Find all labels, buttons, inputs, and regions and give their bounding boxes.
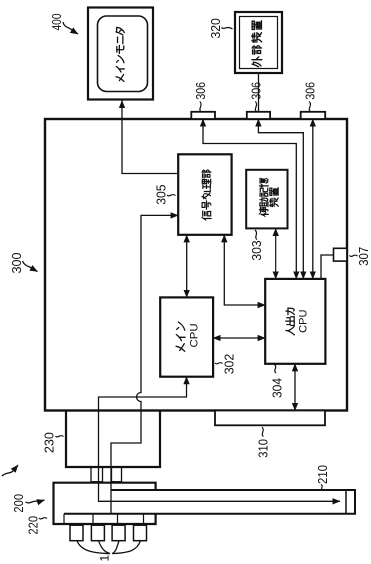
- text 装置: [269, 188, 278, 207]
- wire 320 to connector: [258, 73, 260, 112]
- tilde for 303: [255, 230, 257, 240]
- svg-text:305: 305: [153, 185, 168, 205]
- signal processor 305: [178, 154, 231, 235]
- leader curve from square s4 to label 1: [113, 541, 141, 554]
- main CPU 302: [160, 297, 213, 376]
- text メインモニタ: [116, 27, 124, 81]
- tilde for 230: [56, 436, 64, 437]
- tilde leader for 320: [222, 27, 233, 29]
- svg-text:320: 320: [208, 18, 223, 38]
- external device 320 inner: [240, 17, 278, 69]
- stub connector a: [91, 467, 103, 482]
- text メイン: [176, 322, 185, 351]
- wire 304 to 310 double arrow: [294, 364, 296, 411]
- tilde for 305: [167, 195, 176, 196]
- wire camera to 305 with hop: [111, 215, 178, 514]
- svg-text:1: 1: [98, 555, 112, 562]
- sensor square 220 s2: [91, 525, 104, 541]
- leader curve from square s3 to label 1: [112, 541, 119, 554]
- bus bar 310: [215, 411, 325, 426]
- housing box 300: [45, 119, 347, 411]
- leader arrow for 200: [26, 501, 39, 503]
- svg-text:230: 230: [42, 432, 57, 453]
- svg-text:306: 306: [248, 82, 263, 100]
- camera head unit 230: [66, 411, 160, 468]
- stub connector b: [112, 467, 122, 482]
- connector 307: [334, 248, 347, 261]
- svg-text:400: 400: [49, 14, 64, 31]
- tilde for 210: [321, 485, 323, 491]
- wire monitor to 305: [122, 101, 178, 174]
- tilde for 304: [275, 365, 277, 374]
- text 信号処理部: [202, 170, 211, 220]
- tilde for 310: [262, 427, 264, 437]
- svg-text:CPU: CPU: [297, 310, 309, 333]
- wire camera to 302: [99, 377, 341, 502]
- scope bar end cap: [345, 490, 347, 514]
- wire 303 to 304 double arrow: [275, 228, 277, 279]
- svg-text:310: 310: [255, 439, 270, 458]
- main monitor 400 outer: [88, 8, 153, 100]
- tilde for 302: [215, 363, 223, 364]
- svg-text:306: 306: [302, 82, 317, 100]
- sensor square 220 s1: [70, 525, 83, 541]
- scope bar 210 tube: [64, 490, 355, 514]
- connector 306 a: [191, 112, 215, 119]
- svg-text:303: 303: [249, 240, 264, 260]
- main monitor 400 screen: [98, 16, 148, 92]
- svg-text:200: 200: [11, 494, 26, 513]
- tilde for 307: [350, 255, 358, 256]
- io CPU 304: [265, 279, 325, 364]
- svg-text:304: 304: [270, 378, 285, 398]
- wire 302 to 304 double arrow: [213, 337, 265, 339]
- svg-text:CPU: CPU: [189, 323, 201, 347]
- wire 305 to 302 double arrow: [186, 235, 188, 298]
- unlabeled leader arrow top-left: [2, 471, 13, 476]
- tilde for 306 c: [309, 102, 310, 112]
- leader curve from square s2 to label 1: [99, 541, 111, 554]
- connector 306 b: [247, 112, 270, 119]
- wire connector c to 304: [312, 119, 314, 279]
- text 入出力: [286, 308, 295, 335]
- tilde for 306 b: [255, 102, 256, 112]
- svg-text:220: 220: [25, 516, 40, 535]
- sensor square 220 s3: [112, 525, 125, 541]
- wire 305 to 304: [224, 235, 265, 305]
- wire 307 to io CPU: [321, 255, 334, 279]
- connector 306 c: [301, 112, 326, 119]
- aux storage 303: [246, 170, 287, 229]
- leader arrow for 400: [63, 22, 73, 31]
- tilde for 306 a: [200, 102, 201, 112]
- text 補助記憶: [259, 178, 268, 216]
- text 外部装置: [252, 21, 262, 67]
- camera body 200: [54, 483, 156, 524]
- tilde for 220: [39, 518, 47, 519]
- svg-text:300: 300: [9, 253, 24, 274]
- sensor strip ticks: [63, 514, 65, 524]
- leader curve from square s1 to label 1: [77, 541, 110, 554]
- svg-text:306: 306: [193, 82, 208, 100]
- wire connector a to 304: [203, 119, 296, 279]
- external device 320 outer: [235, 12, 282, 73]
- svg-text:302: 302: [222, 354, 237, 375]
- leader arrow for 300: [23, 261, 34, 269]
- wire connector b to 304: [258, 119, 303, 279]
- sensor square 220 s4: [134, 525, 147, 541]
- svg-text:307: 307: [356, 247, 371, 266]
- svg-text:210: 210: [315, 465, 330, 484]
